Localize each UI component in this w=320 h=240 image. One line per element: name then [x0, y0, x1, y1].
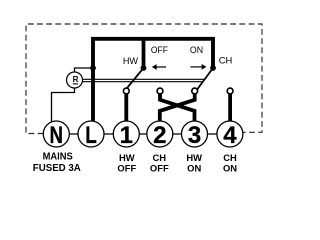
switch arm HW	[125, 68, 144, 91]
svg-text:CH: CH	[223, 152, 237, 163]
svg-text:HW: HW	[123, 56, 139, 66]
label terminal 1 HW OFF	[117, 152, 136, 174]
svg-text:MAINS: MAINS	[43, 152, 73, 163]
contact HW OFF	[123, 88, 129, 94]
wire: L feed bus	[93, 39, 213, 122]
wire: motor R to N	[52, 88, 75, 123]
svg-text:N: N	[50, 122, 64, 149]
junction dot: L feed	[90, 65, 96, 71]
junction dot: HW switch pivot	[141, 65, 147, 71]
contact CH OFF	[192, 88, 198, 94]
svg-text:OFF: OFF	[117, 162, 136, 173]
svg-text:4: 4	[223, 122, 237, 149]
arrow ON direction	[191, 64, 207, 70]
label terminal 2 CH OFF	[150, 152, 169, 174]
terminal L	[78, 121, 104, 149]
arrow OFF direction	[152, 64, 166, 70]
svg-text:1: 1	[120, 122, 133, 149]
svg-text:FUSED 3A: FUSED 3A	[33, 163, 81, 174]
svg-text:HW: HW	[186, 152, 202, 163]
contact CH ON	[227, 88, 233, 94]
svg-text:ON: ON	[190, 45, 203, 56]
wire: CH OFF contact to terminal 2 crossover	[160, 91, 195, 122]
svg-text:2: 2	[153, 122, 166, 149]
enclosure dashed outline	[26, 24, 262, 134]
svg-text:R: R	[73, 74, 80, 84]
label terminal 3 HW ON	[186, 152, 202, 174]
svg-text:CH: CH	[219, 55, 233, 66]
motor R	[67, 72, 83, 88]
wire: HW switch feed	[142, 39, 146, 68]
terminal 3	[182, 121, 208, 149]
svg-text:HW: HW	[119, 152, 135, 163]
terminal strip tie line	[43, 133, 243, 135]
svg-text:OFF: OFF	[151, 45, 168, 56]
terminal 4	[217, 121, 243, 149]
label MAINS FUSED 3A	[33, 152, 81, 174]
wire: motor R to L junction	[75, 68, 94, 72]
junction dot: CH switch pivot	[210, 65, 216, 71]
svg-text:ON: ON	[187, 162, 201, 173]
svg-text:3: 3	[188, 122, 201, 149]
terminal N	[43, 121, 69, 149]
svg-text:OFF: OFF	[150, 162, 169, 173]
mechanical linkage upper line	[82, 78, 204, 80]
svg-text:ON: ON	[223, 162, 237, 173]
terminal 1	[113, 121, 139, 149]
terminal 2	[147, 121, 173, 149]
switch arm CH	[196, 68, 213, 91]
label terminal 4 CH ON	[223, 152, 237, 174]
wire: HW OFF contact to terminal 1	[124, 91, 128, 122]
mechanical linkage lower line	[82, 81, 202, 83]
svg-text:L: L	[85, 122, 97, 149]
contact HW ON	[157, 88, 163, 94]
svg-text:CH: CH	[153, 152, 167, 163]
wire: HW ON contact to terminal 3 crossover	[160, 91, 195, 122]
wire: CH ON contact to terminal 4	[228, 91, 232, 122]
